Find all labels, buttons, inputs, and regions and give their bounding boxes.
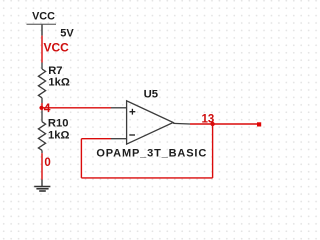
resistor R7 xyxy=(38,63,45,104)
ground xyxy=(34,180,50,192)
wire feedback: right vertical xyxy=(212,124,214,178)
svg-text:1kΩ: 1kΩ xyxy=(48,129,69,141)
resistor R10 xyxy=(38,110,45,153)
svg-text:R7: R7 xyxy=(48,65,62,77)
wire node 4 to op-amp + input xyxy=(42,107,112,109)
junction node 4 xyxy=(39,106,43,110)
svg-text:5V: 5V xyxy=(60,27,74,39)
svg-text:R10: R10 xyxy=(48,118,69,130)
wire R10 to ground xyxy=(41,153,43,179)
svg-text:U5: U5 xyxy=(144,88,158,100)
svg-text:VCC: VCC xyxy=(32,11,55,23)
wire endpoint marker xyxy=(257,122,261,126)
svg-text:13: 13 xyxy=(202,113,215,125)
wire VCC to R7 xyxy=(41,36,43,63)
op-amp U5 xyxy=(111,101,190,144)
wire op-amp output to node 13 xyxy=(190,123,259,125)
svg-text:1kΩ: 1kΩ xyxy=(48,77,69,89)
svg-text:OPAMP_3T_BASIC: OPAMP_3T_BASIC xyxy=(96,147,207,159)
junction node 13 xyxy=(210,122,214,126)
wire feedback: bottom horizontal xyxy=(81,177,212,179)
svg-text:0: 0 xyxy=(44,157,50,169)
wire feedback: left vertical xyxy=(80,139,82,178)
power symbol VCC xyxy=(27,11,57,36)
wire R7 to node 4 xyxy=(41,103,43,110)
svg-text:VCC: VCC xyxy=(44,40,70,54)
wire feedback: minus input segment xyxy=(81,138,111,140)
